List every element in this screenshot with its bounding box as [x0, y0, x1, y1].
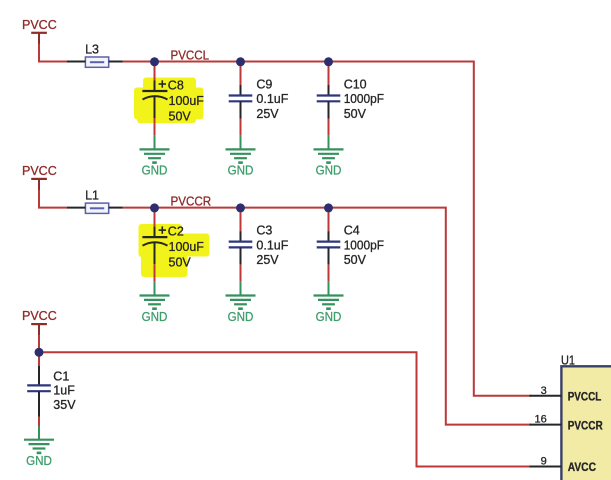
capacitor C9 [229, 78, 289, 121]
wire C3 lower lead [240, 265, 242, 282]
ground under C4 [314, 282, 344, 324]
pin 16 PVCCR [530, 414, 603, 433]
svg-text:9: 9 [541, 456, 547, 468]
highlighter mark over C8 [134, 78, 204, 124]
svg-text:C8: C8 [168, 79, 184, 93]
wire node to C1 [38, 352, 40, 366]
svg-text:1000pF: 1000pF [344, 238, 385, 252]
wire C2 lower lead [154, 264, 156, 282]
svg-text:PVCC: PVCC [22, 18, 57, 32]
power port PVCC (row PVCCR) [22, 164, 57, 190]
svg-text:GND: GND [142, 310, 168, 324]
svg-text:50V: 50V [169, 110, 192, 124]
wire L3 to U1 pin (PVCCL net) [123, 62, 532, 396]
svg-text:GND: GND [228, 310, 254, 324]
inductor L3 [85, 43, 109, 68]
svg-text:AVCC: AVCC [568, 460, 596, 474]
wire PVCC to L3 [39, 44, 67, 62]
svg-text:C9: C9 [256, 78, 272, 92]
wire C4 lower lead [328, 265, 330, 282]
svg-text:C1: C1 [53, 370, 69, 384]
svg-text:PVCCL: PVCCL [171, 48, 210, 62]
wire C10 upper lead [328, 62, 330, 86]
junction node PVCCR/C3 [236, 203, 245, 212]
capacitor C3 [229, 224, 289, 267]
svg-text:L3: L3 [85, 43, 99, 57]
junction node PVCCL/C9 [236, 57, 245, 66]
wire C8 lower lead [154, 118, 156, 136]
svg-text:16: 16 [535, 414, 547, 426]
junction node PVCCL/C8 [150, 57, 159, 66]
svg-text:100uF: 100uF [169, 94, 205, 108]
svg-text:PVCCR: PVCCR [171, 194, 212, 208]
inductor L1 pins [67, 207, 123, 209]
svg-text:35V: 35V [53, 398, 76, 412]
wire L1 to U1 pin (PVCCR net) [123, 208, 532, 425]
power port PVCC (row AVCC) [22, 309, 57, 335]
capacitor C1 [27, 366, 76, 417]
pin 3 PVCCL [530, 385, 602, 404]
power port PVCC (row PVCCL) [22, 18, 57, 44]
ground under C10 [314, 136, 344, 178]
capacitor C10 [317, 78, 385, 121]
wire C10 lower lead [328, 119, 330, 136]
capacitor C4 [317, 224, 385, 267]
IC U1 body [561, 353, 611, 480]
wire C9 lower lead [240, 119, 242, 136]
svg-text:PVCCL: PVCCL [568, 390, 602, 404]
wire C4 upper lead [328, 208, 330, 232]
net label PVCCR [171, 194, 212, 208]
pin 9 AVCC [530, 456, 597, 474]
ground under C9 [226, 136, 256, 178]
svg-text:GND: GND [142, 164, 168, 178]
svg-text:100uF: 100uF [169, 240, 205, 254]
svg-text:C10: C10 [344, 78, 367, 92]
ground under C8 [140, 136, 170, 178]
ground under C3 [226, 282, 256, 324]
svg-text:50V: 50V [344, 253, 367, 267]
highlighter mark over C2 [139, 224, 210, 277]
ground under C2 [140, 282, 170, 324]
svg-text:U1: U1 [561, 353, 575, 367]
wire C8 upper lead [154, 62, 156, 81]
capacitor C8 (polarized) [142, 79, 204, 124]
svg-text:C2: C2 [168, 225, 184, 239]
svg-text:GND: GND [228, 164, 254, 178]
svg-text:25V: 25V [256, 107, 279, 121]
inductor L1 [85, 189, 109, 214]
svg-text:C3: C3 [256, 224, 272, 238]
wire node to U1 pin 9 (AVCC net) [39, 352, 530, 466]
junction node PVCC/C1/AVCC [35, 348, 44, 357]
svg-text:GND: GND [26, 454, 52, 468]
wire C9 upper lead [240, 62, 242, 86]
svg-text:PVCCR: PVCCR [568, 418, 603, 432]
svg-text:1000pF: 1000pF [344, 92, 385, 106]
junction node PVCCR/C4 [324, 203, 333, 212]
svg-text:PVCC: PVCC [22, 164, 57, 178]
svg-text:PVCC: PVCC [22, 309, 57, 323]
svg-text:GND: GND [316, 310, 342, 324]
junction node PVCCR/C2 [150, 203, 159, 212]
svg-text:0.1uF: 0.1uF [256, 238, 288, 252]
svg-text:50V: 50V [169, 256, 192, 270]
wire C1 lower lead [38, 417, 40, 427]
junction node PVCCL/C10 [324, 57, 333, 66]
svg-text:L1: L1 [85, 189, 99, 203]
ground under C1 [24, 426, 54, 468]
wire PVCC to node [38, 335, 40, 352]
wire C3 upper lead [240, 208, 242, 232]
svg-text:50V: 50V [344, 107, 367, 121]
capacitor C2 (polarized) [142, 225, 204, 270]
svg-text:25V: 25V [256, 253, 279, 267]
wire PVCC to L1 [39, 190, 67, 208]
svg-text:C4: C4 [344, 224, 360, 238]
inductor L3 pins [67, 61, 123, 63]
svg-text:3: 3 [541, 385, 547, 397]
net label PVCCL [171, 48, 210, 62]
svg-text:GND: GND [316, 164, 342, 178]
svg-text:0.1uF: 0.1uF [256, 92, 288, 106]
svg-text:1uF: 1uF [53, 384, 75, 398]
wire C2 upper lead [154, 208, 156, 227]
